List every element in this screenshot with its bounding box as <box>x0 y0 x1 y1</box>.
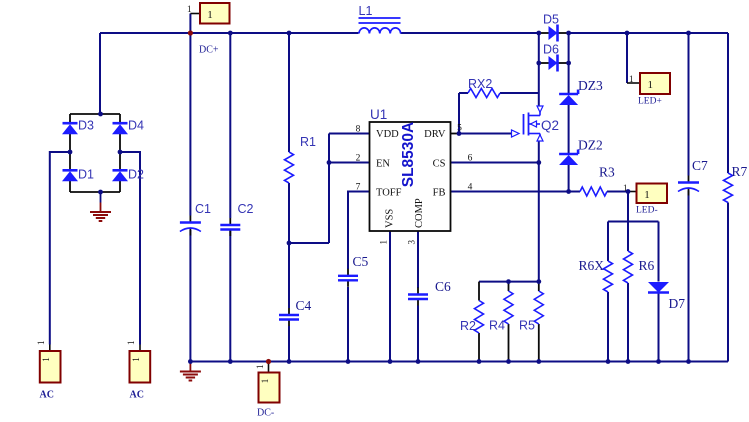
capacitor C7 (polarized) <box>678 158 708 196</box>
junction DRV node <box>457 131 462 136</box>
svg-text:6: 6 <box>468 154 473 164</box>
wire RX2 right lead <box>500 92 539 94</box>
wire bridge right leg middle <box>119 134 121 170</box>
junction C7 top <box>686 31 691 36</box>
wire DRV pin stub <box>451 133 460 135</box>
svg-text:D7: D7 <box>669 296 686 311</box>
diode D2 <box>112 168 144 182</box>
junction VSS bottom <box>388 359 393 364</box>
junction C4 bottom <box>287 359 292 364</box>
resistor R1 <box>285 135 317 183</box>
wire R5 top lead <box>538 282 540 291</box>
wire bridge left node to AC1 <box>50 152 70 345</box>
svg-text:R3: R3 <box>599 165 615 180</box>
svg-text:LED-: LED- <box>636 206 658 216</box>
wire C1 top <box>189 33 191 216</box>
wire R7 top <box>727 33 729 173</box>
wire C4 bottom to bus <box>288 326 290 362</box>
node bridge top <box>98 112 103 117</box>
wire R6X top lead <box>607 222 609 262</box>
svg-text:1: 1 <box>207 9 213 21</box>
junction C6 bottom <box>416 359 421 364</box>
junction D6 left <box>536 61 541 66</box>
wire R6 top lead <box>627 222 629 252</box>
svg-text:LED+: LED+ <box>638 97 662 107</box>
wire C7 top <box>688 33 690 176</box>
svg-text:C7: C7 <box>692 158 708 173</box>
connector P-AC1 (AC) <box>40 351 61 383</box>
svg-text:C5: C5 <box>353 254 369 269</box>
wire VDD pin stub <box>329 133 370 135</box>
svg-text:2: 2 <box>356 154 361 164</box>
resistor R3 <box>580 165 615 197</box>
zener diode DZ3 <box>559 78 603 105</box>
junction C5 bottom <box>346 359 351 364</box>
wire bottom bus <box>190 361 728 363</box>
junction FB-DZ2 node <box>566 189 571 194</box>
wire DC- connector stub <box>268 362 270 373</box>
junction C7 bottom <box>686 359 691 364</box>
svg-text:1: 1 <box>42 357 52 362</box>
svg-text:3: 3 <box>407 240 417 245</box>
junction R2 bottom <box>477 359 482 364</box>
connector P-DC- (DC-) <box>259 373 280 403</box>
wire FB pin to DZ2 node <box>451 191 569 193</box>
wire R6X bottom lead <box>607 292 609 362</box>
junction R4 bottom <box>506 359 511 364</box>
svg-text:R5: R5 <box>519 319 535 333</box>
wire VDD-EN vertical <box>328 134 330 244</box>
svg-text:AC: AC <box>40 390 54 401</box>
wire bridge left leg upper <box>69 114 71 123</box>
wire AC2 connector stub <box>139 345 141 352</box>
svg-text:C2: C2 <box>238 202 254 216</box>
wire R4 bottom lead <box>508 324 510 362</box>
resistor R7 <box>724 164 748 203</box>
wire C7 bottom <box>688 191 690 362</box>
diode D7 <box>648 282 685 311</box>
junction D7 bottom <box>656 359 661 364</box>
wire CS pin to Q2 source node <box>451 162 539 164</box>
svg-text:R7: R7 <box>732 164 748 179</box>
wire R2-R4-R5 bracket <box>479 281 539 283</box>
wire C1 bottom to bus <box>189 230 191 362</box>
svg-text:VSS: VSS <box>385 209 396 228</box>
wire R3 left lead <box>569 191 580 193</box>
svg-text:1: 1 <box>644 189 650 201</box>
wire R1 node to VDD vertical <box>289 242 329 244</box>
wire top bus right <box>569 32 728 34</box>
wire bridge right leg upper <box>119 114 121 123</box>
svg-text:R6X: R6X <box>579 258 605 273</box>
connector P-LED+ (LED+) <box>640 73 670 94</box>
capacitor C4 <box>279 298 312 326</box>
wire R7 bottom <box>727 203 729 362</box>
wire D7 top lead <box>658 222 660 282</box>
wire left rail to RX2 node <box>538 63 540 93</box>
svg-text:DZ2: DZ2 <box>578 138 603 153</box>
svg-text:VDD: VDD <box>376 129 399 140</box>
junction C2 bottom <box>228 359 233 364</box>
junction C2 top <box>228 31 233 36</box>
svg-text:7: 7 <box>356 183 361 193</box>
connector P1 (DC+) <box>200 3 230 24</box>
svg-text:DZ3: DZ3 <box>578 78 603 93</box>
svg-text:DC+: DC+ <box>199 45 219 56</box>
wire LED+ drop <box>626 33 628 83</box>
svg-text:SL8530A: SL8530A <box>400 122 417 187</box>
wire R2 top lead <box>478 282 480 301</box>
svg-text:C1: C1 <box>195 202 211 216</box>
wire EN pin stub <box>329 162 370 164</box>
svg-text:AC: AC <box>130 390 144 401</box>
wire DC+ connector drop <box>189 14 191 34</box>
node bridge bottom <box>98 190 103 195</box>
wire RX2 left lead <box>459 92 468 94</box>
junction D5 left <box>536 31 541 36</box>
junction EN node <box>327 160 332 165</box>
wire C2 top <box>229 33 231 218</box>
junction R5 bottom <box>536 359 541 364</box>
wire D5-D6 right link <box>568 33 570 63</box>
zener diode DZ2 <box>559 138 603 166</box>
junction DC- (red) <box>266 359 271 364</box>
diode D3 <box>62 119 94 135</box>
wire R4 top lead <box>508 282 510 291</box>
svg-text:DRV: DRV <box>424 129 446 140</box>
svg-text:4: 4 <box>468 183 473 193</box>
wire COMP pin to C6 <box>417 231 419 288</box>
svg-text:1: 1 <box>261 378 271 383</box>
wire R6 bottom lead <box>627 283 629 362</box>
svg-text:D4: D4 <box>128 119 144 133</box>
resistor RX2 <box>468 77 500 98</box>
wire LED- node down <box>627 192 629 222</box>
svg-text:Q2: Q2 <box>541 118 559 133</box>
svg-text:8: 8 <box>356 125 361 135</box>
connector P-AC2 (AC) <box>130 351 151 383</box>
junction R1-C4 node <box>287 241 292 246</box>
wire R5 bottom lead <box>538 324 540 362</box>
diode D4 <box>112 119 144 135</box>
svg-text:D5: D5 <box>543 13 559 27</box>
ground (bottom bus left end) <box>180 362 201 381</box>
resistor R5 <box>519 291 543 333</box>
svg-text:C6: C6 <box>435 279 451 294</box>
diode D6 <box>539 43 569 72</box>
svg-text:R6: R6 <box>639 258 655 273</box>
svg-text:D1: D1 <box>78 168 94 182</box>
svg-text:R2: R2 <box>460 319 476 333</box>
node bridge left <box>68 150 73 155</box>
wire C6 bottom to bus <box>417 306 419 362</box>
svg-text:U1: U1 <box>370 107 387 122</box>
capacitor C1 (polarized) <box>180 202 211 236</box>
svg-text:D6: D6 <box>543 43 559 57</box>
wire C2 bottom <box>229 230 231 362</box>
svg-text:1: 1 <box>629 74 634 84</box>
svg-text:1: 1 <box>126 341 136 346</box>
wire R3 right lead <box>607 191 628 193</box>
junction R4 bracket <box>506 279 511 284</box>
wire VSS pin to bus <box>389 231 391 362</box>
svg-text:1: 1 <box>255 365 265 370</box>
wire CS down to R5 bracket <box>538 163 540 282</box>
diode D1 <box>62 168 94 182</box>
svg-text:TOFF: TOFF <box>376 187 402 198</box>
wire bracket R6X-R6-D7 <box>608 221 659 223</box>
svg-text:EN: EN <box>376 158 390 169</box>
wire Q2 source down to CS <box>538 141 540 163</box>
resistor R4 <box>489 291 513 333</box>
inductor L1 <box>359 4 401 34</box>
svg-text:R4: R4 <box>489 319 505 333</box>
wire DZ2 to FB node <box>568 165 570 192</box>
wire bridge left leg middle <box>69 134 71 170</box>
svg-text:CS: CS <box>433 158 446 169</box>
node bridge right <box>118 150 123 155</box>
svg-text:1: 1 <box>132 357 142 362</box>
wire bridge top <box>70 113 120 115</box>
wire C5 bottom to bus <box>347 287 349 362</box>
junction LED- node <box>626 189 631 194</box>
svg-text:1: 1 <box>648 79 654 91</box>
capacitor C6 <box>408 279 451 306</box>
ground (bridge) <box>90 203 111 222</box>
svg-text:L1: L1 <box>359 4 373 18</box>
svg-text:FB: FB <box>433 187 446 198</box>
wire LED+ connector stub <box>627 82 640 84</box>
wire TOFF pin to C5 <box>348 192 370 270</box>
svg-text:D3: D3 <box>78 119 94 133</box>
svg-text:RX2: RX2 <box>468 77 492 91</box>
svg-text:C4: C4 <box>296 298 312 313</box>
junction CS node <box>536 160 541 165</box>
resistor R6 <box>624 251 655 283</box>
wire top bus left (DC+ net) <box>100 32 359 34</box>
wire R1 top <box>288 33 290 152</box>
capacitor C5 <box>338 254 369 287</box>
wire R1 bottom / C4 top <box>288 183 290 308</box>
junction R6X bottom <box>606 359 611 364</box>
svg-text:R1: R1 <box>300 135 316 149</box>
wire bridge left leg lower <box>69 181 71 192</box>
svg-text:1: 1 <box>379 240 389 245</box>
wire DC+ connector stub <box>190 13 200 15</box>
junction R6 bottom <box>626 359 631 364</box>
wire bridge right leg lower <box>119 181 121 192</box>
wire D5-D6 left link <box>538 33 540 63</box>
diode D5 <box>539 13 569 42</box>
junction D5 right <box>566 31 571 36</box>
wire bridge bottom <box>70 191 120 193</box>
wire right rail to DZ3 <box>568 63 570 94</box>
wire DRV to Q2 gate <box>459 133 512 135</box>
svg-text:D2: D2 <box>128 168 144 182</box>
junction LED+ top <box>625 31 630 36</box>
svg-text:COMP: COMP <box>414 198 425 228</box>
capacitor C2 <box>220 202 253 236</box>
wire D7 bottom lead <box>658 293 660 362</box>
svg-text:1: 1 <box>36 341 46 346</box>
wire R2 bottom lead <box>478 333 480 362</box>
junction R5 bracket <box>536 279 541 284</box>
connector P-LED- (LED-) <box>637 184 668 204</box>
wire RX2 node down to Q2 drain <box>538 93 540 106</box>
junction DC+ (red) <box>188 30 193 35</box>
svg-text:DC-: DC- <box>257 408 274 419</box>
junction R1 top <box>287 31 292 36</box>
wire bridge right node to AC2 <box>120 152 140 345</box>
op-amp U1 SL8530A (IC body) <box>370 107 451 231</box>
wire bus corner down to bridge top <box>99 33 101 114</box>
wire bridge bottom node stem <box>100 192 102 203</box>
resistor R6X <box>579 258 613 292</box>
svg-text:1: 1 <box>187 4 192 14</box>
junction bus left end <box>188 359 193 364</box>
transistor Q2 (N-MOSFET) <box>512 106 560 141</box>
resistor R2 <box>460 301 484 334</box>
junction D6 right <box>566 61 571 66</box>
wire DZ3 to DZ2 <box>568 105 570 154</box>
wire LED- connector stub <box>628 191 637 193</box>
wire top bus middle <box>401 32 539 34</box>
wire DRV node up to RX2 <box>458 93 460 134</box>
wire AC1 connector stub <box>49 345 51 352</box>
